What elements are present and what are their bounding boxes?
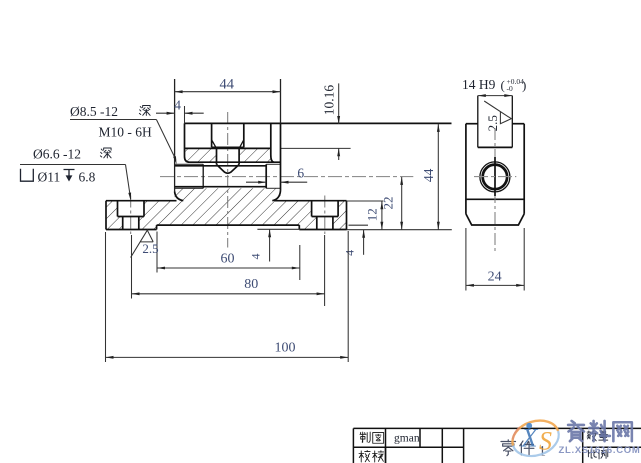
svg-text:44: 44 xyxy=(421,168,436,182)
svg-text:-0: -0 xyxy=(507,84,513,93)
svg-text:Ø6.6 -12: Ø6.6 -12 xyxy=(33,147,81,162)
svg-text:Ø8.5 -12: Ø8.5 -12 xyxy=(70,104,118,119)
svg-text:4: 4 xyxy=(174,98,181,113)
svg-text:ZL.XS1616.COM: ZL.XS1616.COM xyxy=(559,445,641,456)
svg-text:14 H9: 14 H9 xyxy=(462,77,496,92)
svg-text:6: 6 xyxy=(297,166,304,181)
svg-text:4: 4 xyxy=(342,250,356,256)
svg-text:gman: gman xyxy=(394,432,420,444)
svg-text:X: X xyxy=(521,424,539,453)
svg-text:Ø11: Ø11 xyxy=(38,169,61,184)
svg-text:10.16: 10.16 xyxy=(321,85,336,116)
svg-text:60: 60 xyxy=(221,251,235,266)
svg-text:24: 24 xyxy=(488,270,502,285)
svg-text:(: ( xyxy=(501,78,505,93)
svg-text:6.8: 6.8 xyxy=(79,169,96,184)
svg-text:100: 100 xyxy=(275,340,296,355)
svg-text:S: S xyxy=(539,427,552,456)
svg-text:22: 22 xyxy=(381,197,396,210)
svg-text:12: 12 xyxy=(365,208,380,221)
svg-text:M10 - 6H: M10 - 6H xyxy=(99,124,152,139)
svg-text:4: 4 xyxy=(248,254,262,260)
svg-text:): ) xyxy=(522,78,526,93)
svg-text:44: 44 xyxy=(220,76,235,92)
svg-text:2.5: 2.5 xyxy=(142,241,158,256)
svg-text:80: 80 xyxy=(244,277,258,292)
svg-text:2.5: 2.5 xyxy=(485,115,500,131)
